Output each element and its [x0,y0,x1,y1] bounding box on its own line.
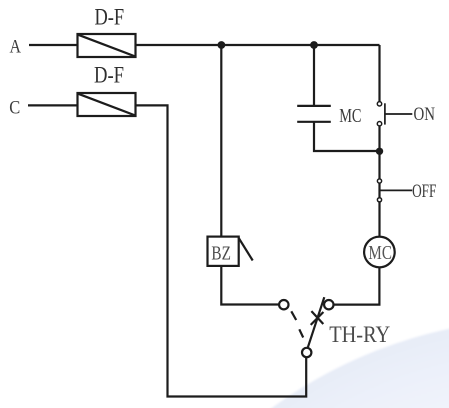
svg-text:D-F: D-F [94,63,124,88]
svg-text:ON: ON [414,105,436,125]
svg-text:TH-RY: TH-RY [329,322,390,347]
svg-text:MC: MC [339,105,361,127]
svg-text:MC: MC [368,242,392,264]
svg-text:A: A [10,36,22,57]
svg-text:BZ: BZ [211,242,231,264]
svg-text:OFF: OFF [412,182,436,202]
svg-text:D-F: D-F [95,5,125,30]
svg-text:C: C [9,98,20,119]
